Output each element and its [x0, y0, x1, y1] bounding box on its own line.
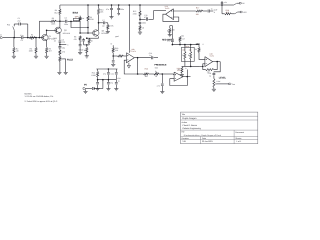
wire - V+ top rail [60, 4, 222, 6]
resistor R22 1K to ground [181, 65, 183, 68]
svg-text:Revision: Revision [182, 137, 189, 140]
wire - power mid bus [98, 79, 117, 81]
wire - switch branch right side [27, 24, 29, 38]
svg-text:10u: 10u [62, 46, 65, 49]
ground - mid shift pot [168, 34, 172, 36]
svg-text:4K7: 4K7 [49, 50, 52, 53]
connector J3 DC power [83, 88, 85, 90]
resistor R3 100K bias [35, 38, 37, 48]
svg-text:PRESENCE: PRESENCE [154, 64, 167, 67]
ground - DC jack [85, 89, 87, 91]
ground - C23 [106, 88, 110, 90]
potentiometer MID SHIFT [169, 26, 171, 29]
switch SW1 Fat [13, 30, 15, 37]
wire - pot bottom to ground [59, 61, 61, 72]
svg-text:9V: 9V [84, 84, 87, 87]
capacitor C2 2.2u series input cap [21, 36, 23, 39]
svg-text:1 of 1: 1 of 1 [236, 140, 241, 143]
svg-text:3.01: 3.01 [182, 140, 186, 143]
svg-text:100n: 100n [120, 8, 124, 11]
switch SW2 battery [222, 4, 234, 6]
wire - U4 feedback loop [170, 77, 188, 86]
capacitor C19 1u level [213, 71, 215, 74]
svg-text:4.7n: 4.7n [157, 84, 160, 87]
capacitor C7 Q3 collector output cap [99, 22, 103, 24]
ground - fuzz pot [57, 71, 61, 73]
connector J2 output jack Out [229, 83, 231, 85]
node Q3 base node [79, 32, 81, 34]
svg-text:Chuck D. Bones: Chuck D. Bones [182, 124, 196, 127]
resistor R7 vertical at fuzz pot [79, 16, 81, 17]
svg-text:Fat: Fat [7, 23, 10, 26]
svg-text:47n: 47n [167, 40, 170, 43]
svg-text:R1: R1 [31, 34, 33, 37]
transistor Q2 [55, 27, 61, 33]
wire - U3 output down to LEVEL [214, 62, 220, 72]
svg-text:BC549: BC549 [102, 32, 108, 35]
svg-text:In: In [0, 34, 2, 37]
capacitor C12 to ground at U2 inverting [112, 56, 114, 60]
svg-text:Title: Title [182, 113, 186, 116]
wire - U3 output [213, 61, 221, 63]
trimmer VR1 bias box [75, 20, 77, 23]
svg-text:2. Select R24 for approx 4.5V: 2. Select R24 for approx 4.5V at Q2-C. [25, 100, 59, 103]
ground - after C7 [106, 31, 110, 33]
potentiometer FUZZ [59, 55, 61, 57]
svg-text:270: 270 [62, 51, 65, 54]
resistor R1 series input [29, 37, 35, 39]
svg-text:47u: 47u [106, 8, 109, 11]
resistor R27 100R [97, 69, 99, 71]
ground - C18 [160, 91, 164, 93]
wire - U1A feedback loop [163, 14, 179, 21]
wire - input wire floating to U1A [154, 10, 167, 12]
wire - dual pot connections [184, 45, 186, 52]
potentiometer GAIN [86, 45, 88, 47]
svg-text:1u: 1u [209, 74, 211, 77]
ground - R3 [34, 55, 38, 57]
capacitor C21 47u filter [115, 69, 117, 72]
resistor R20 into U2 [113, 55, 117, 57]
wire - U4 output riser to net stub [186, 70, 188, 77]
svg-text:D:\schematics\fuzz - Purple Dr: D:\schematics\fuzz - Purple Dragon v3.0.… [184, 134, 221, 137]
wire - Q3 emitter [98, 36, 100, 38]
svg-text:2K2: 2K2 [181, 34, 184, 37]
ground - C24 [114, 88, 118, 90]
ground - gain pot [85, 55, 89, 57]
svg-text:GAIN: GAIN [79, 48, 84, 51]
potentiometer PRESENCE rheostat [154, 73, 159, 75]
title block frame [181, 112, 258, 144]
svg-text:FUZZ: FUZZ [67, 59, 74, 62]
capacitor C9 rail decoupling 100n [117, 7, 120, 9]
svg-text:100n: 100n [64, 23, 68, 26]
svg-text:MPSA18: MPSA18 [63, 32, 70, 35]
ground - U2 Vminus arrow [128, 63, 130, 66]
svg-text:10n: 10n [102, 24, 105, 27]
resistor R2 1M input pulldown [13, 38, 15, 48]
resistor R12 emitter [88, 37, 90, 39]
diode D1 polarity protection [92, 87, 94, 89]
capacitor C10 100n to ground [139, 19, 141, 21]
capacitor C22 filter to ground [97, 80, 99, 82]
op-amp U4 buffer [173, 73, 176, 76]
wire - wiper to ground [63, 58, 66, 60]
svg-text:Out: Out [232, 83, 235, 86]
wire - V+ down to U2 [128, 5, 130, 50]
svg-text:47u: 47u [110, 82, 113, 85]
svg-text:gnd: gnd [115, 35, 118, 38]
resistor R4 Q2 collector load [59, 5, 61, 9]
resistor R18 4K7 LED [222, 13, 225, 15]
svg-text:Author: Author [182, 121, 188, 124]
svg-text:C21: C21 [111, 72, 114, 75]
wire - power top bus [96, 68, 117, 70]
svg-text:470n: 470n [144, 16, 148, 19]
svg-text:C2: C2 [21, 39, 23, 42]
wire - bias loop to R9 column [71, 21, 88, 27]
resistor R23 1K [198, 47, 200, 52]
resistor R15 470K from rail [139, 5, 141, 11]
svg-text:Purple Dragon: Purple Dragon [182, 117, 197, 120]
capacitor C5 2.2u emitter [59, 40, 62, 42]
ground - mid network [138, 31, 142, 33]
svg-text:Galactic Engineering: Galactic Engineering [182, 127, 200, 130]
svg-text:LEVEL: LEVEL [219, 76, 227, 79]
wire - diode to vref bus [95, 88, 103, 90]
resistor R9 Q3 base bias from rail [87, 5, 89, 16]
resistor R8 base to ground [79, 36, 81, 41]
wire - up to U1A input [153, 11, 155, 20]
title block column lines [233, 130, 235, 144]
ground - wiper [64, 71, 68, 73]
capacitor C6 emitter bypass [83, 38, 85, 39]
capacitor C24 filter to ground [115, 82, 118, 84]
svg-text:1u: 1u [80, 39, 82, 42]
capacitor C18 4n7 to ground [161, 74, 163, 83]
svg-text:Date: Date [202, 137, 206, 140]
svg-text:Q2: Q2 [64, 29, 67, 32]
resistor R25 36K [144, 73, 149, 75]
ground - C22 [96, 88, 100, 90]
wire - to Q3 base [80, 32, 92, 34]
svg-text:R17: R17 [196, 7, 199, 10]
potentiometer dual gang MID 10K [181, 47, 194, 61]
svg-text:4K7: 4K7 [226, 11, 229, 14]
wire - U2 feedback loop to bottom node [134, 57, 151, 59]
capacitor C8 rail decoupling 47u [110, 7, 113, 9]
capacitor C25 at rail end [221, 4, 223, 5]
resistor R24 U3 feedback [214, 62, 217, 70]
resistor R14 270 [59, 50, 61, 55]
svg-text:22-Jan-2021: 22-Jan-2021 [202, 140, 213, 143]
svg-text:1u: 1u [211, 8, 213, 11]
capacitor C5 base filter [79, 44, 82, 46]
resistor R16 1K [139, 26, 141, 31]
svg-text:Document: Document [235, 131, 244, 134]
svg-text:2.2u: 2.2u [62, 41, 66, 44]
wire - U4 output [183, 76, 190, 78]
ground - Q3 base network [78, 51, 82, 53]
svg-text:100R: 100R [91, 74, 96, 77]
wire - Q2 emitter chain [59, 33, 61, 40]
svg-text:MID: MID [196, 43, 201, 46]
capacitor C20 47u filter [107, 69, 109, 72]
resistor R10 Q3 collector load [98, 5, 100, 8]
wire - from DC jack [85, 88, 92, 90]
capacitor C16 47n mid [171, 39, 174, 41]
resistor R17 after U1A [196, 10, 203, 12]
svg-text:BIAS: BIAS [73, 12, 79, 15]
svg-text:2n2: 2n2 [17, 19, 20, 22]
svg-text:C17: C17 [182, 38, 185, 41]
capacitor C1 2n2 in switch branch [14, 23, 19, 25]
transistor Q3 [93, 30, 99, 36]
svg-text:Sheets: Sheets [235, 137, 241, 140]
wire - mid shift to cap branch [170, 25, 173, 27]
node junction dots on V+ rail [87, 4, 89, 6]
wire - emitter tap stub [60, 43, 66, 45]
capacitor C23 filter to ground [107, 80, 109, 82]
ground - R22 [180, 74, 184, 76]
ground - C9 arrow style [118, 13, 120, 15]
svg-text:2.2u: 2.2u [20, 34, 24, 37]
wire - bottom signal path [138, 73, 144, 75]
ground - level pot [212, 88, 216, 90]
wire - pot bottom bus [182, 65, 200, 67]
wire - MID node to U3 plus input via R23 [198, 45, 200, 48]
wire - wiper to output jack [217, 83, 229, 85]
wire - emitter network bottom [84, 44, 90, 46]
resistor R5 Q1 emitter [46, 40, 48, 47]
net label input stub to U2 network [112, 45, 114, 47]
svg-text:1. D1-D4 are 1N4148 diodes, 1%: 1. D1-D4 are 1N4148 diodes, 1%. [25, 95, 55, 98]
potentiometer LEVEL [213, 79, 215, 88]
wire - level pot to ground [213, 88, 215, 90]
wire - U3 inverting from bus [200, 65, 203, 67]
wire - down to LED row [221, 5, 223, 14]
svg-text:C4: C4 [65, 17, 67, 20]
svg-text:1u: 1u [149, 54, 151, 57]
svg-text:C7: C7 [102, 19, 104, 22]
svg-text:R20: R20 [145, 67, 148, 70]
wire - input main wire [3, 37, 21, 39]
title block row lines [181, 115, 258, 117]
switch SW3 [231, 13, 234, 15]
svg-text:1u: 1u [118, 79, 120, 82]
svg-text:47u: 47u [103, 72, 106, 75]
svg-text:8K2: 8K2 [54, 11, 57, 14]
wire - MID node line [172, 44, 199, 46]
svg-text:100n: 100n [142, 21, 146, 24]
op-amp U1A mirrored pointing left [166, 9, 174, 20]
node input wire junctions [13, 37, 15, 39]
svg-text:R6: R6 [52, 17, 54, 20]
capacitor C4 output of fuzz 1 [60, 20, 65, 22]
wire - mid bus end [115, 80, 117, 82]
transistor Q1 [42, 34, 48, 40]
node mid network [139, 19, 141, 21]
node Q3 collector tap [98, 22, 100, 24]
op-amp U2 [127, 53, 135, 63]
capacitor C13 1u [203, 10, 208, 12]
ground - Q1 emitter [45, 55, 49, 57]
svg-text:File: File [182, 131, 185, 134]
resistor R6 feedback [38, 21, 40, 37]
capacitor C11 470n to opamp U1A [140, 18, 146, 20]
wire - U1A top terminal to R17 [173, 10, 196, 12]
capacitor C3 electrolytic 10u [58, 46, 61, 48]
wire - Q1 collector to Q2 base [46, 30, 48, 35]
ground - C12 [111, 63, 115, 65]
resistor R11 to ground after C7 [107, 23, 109, 25]
capacitor C14 U2 output 1u [151, 56, 153, 59]
resistor R19 to U2 [112, 47, 114, 52]
ground - R2 [12, 55, 16, 57]
ground - C8 [109, 16, 113, 18]
op-amp U3 [205, 57, 213, 67]
